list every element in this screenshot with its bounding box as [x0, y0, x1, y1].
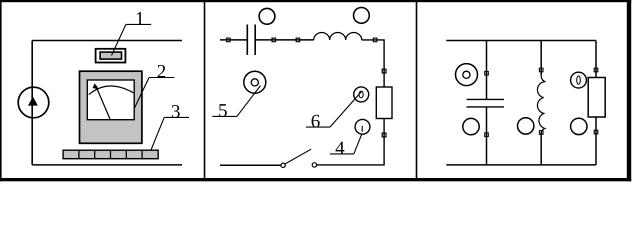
border frame: [0, 0, 631, 181]
meter circle phi: [571, 72, 587, 88]
node square: [485, 71, 489, 75]
open circle: [518, 118, 534, 134]
label 4: [330, 134, 362, 155]
switch contact right: [312, 163, 316, 167]
node square: [485, 133, 489, 137]
label 2: [135, 65, 175, 108]
branch 1 wire: [486, 41, 488, 100]
top rail: [446, 40, 596, 42]
wire left: [31, 41, 33, 165]
lamp circle 4: [355, 119, 370, 134]
label 6: [306, 91, 362, 127]
slider bar 3: [63, 150, 158, 159]
sensor component 1: [96, 49, 126, 63]
wire mid: [255, 39, 314, 41]
push button 5: [244, 71, 266, 93]
lamp circle A: [259, 8, 275, 24]
meter needle: [97, 88, 111, 120]
node square: [373, 38, 377, 42]
open circle: [463, 118, 479, 134]
wire below resistor: [317, 119, 385, 165]
switch blade: [285, 149, 311, 164]
wire bottom left: [220, 164, 281, 166]
meter circle with dot: [456, 64, 478, 86]
panel divider 2: [416, 2, 418, 178]
capacitor C: [247, 25, 255, 56]
node square below resistor: [382, 133, 386, 137]
node square: [539, 131, 543, 135]
meter face: [87, 80, 134, 120]
panel divider 1: [204, 2, 206, 178]
inductor L2: [537, 75, 545, 133]
wire top left: [220, 39, 247, 41]
wire bottom: [32, 164, 182, 166]
meter circle 6: [354, 87, 369, 102]
lamp circle B: [354, 7, 370, 23]
needle arrowhead: [93, 83, 100, 89]
label 5: [212, 86, 260, 117]
inductor L: [314, 33, 362, 40]
wire top: [32, 40, 182, 42]
label 1: [112, 12, 152, 55]
node square: [539, 68, 543, 72]
current source G: [18, 87, 49, 118]
node square: [272, 38, 276, 42]
wire to corner: [362, 40, 384, 87]
open circle: [571, 118, 587, 134]
meter scale arc: [89, 86, 134, 95]
label 3: [151, 105, 189, 150]
branch 2 wire: [540, 41, 542, 76]
node square: [594, 68, 598, 72]
bottom rail: [446, 164, 596, 166]
node square top of resistor: [382, 69, 386, 73]
node square: [296, 38, 300, 42]
capacitor C2: [467, 99, 505, 107]
node square: [594, 130, 598, 134]
resistor R: [376, 87, 392, 119]
branch 3 wire: [595, 41, 597, 78]
meter body: [80, 71, 142, 143]
node square: [227, 38, 231, 42]
switch pivot: [281, 163, 285, 167]
resistor R2: [588, 78, 605, 118]
